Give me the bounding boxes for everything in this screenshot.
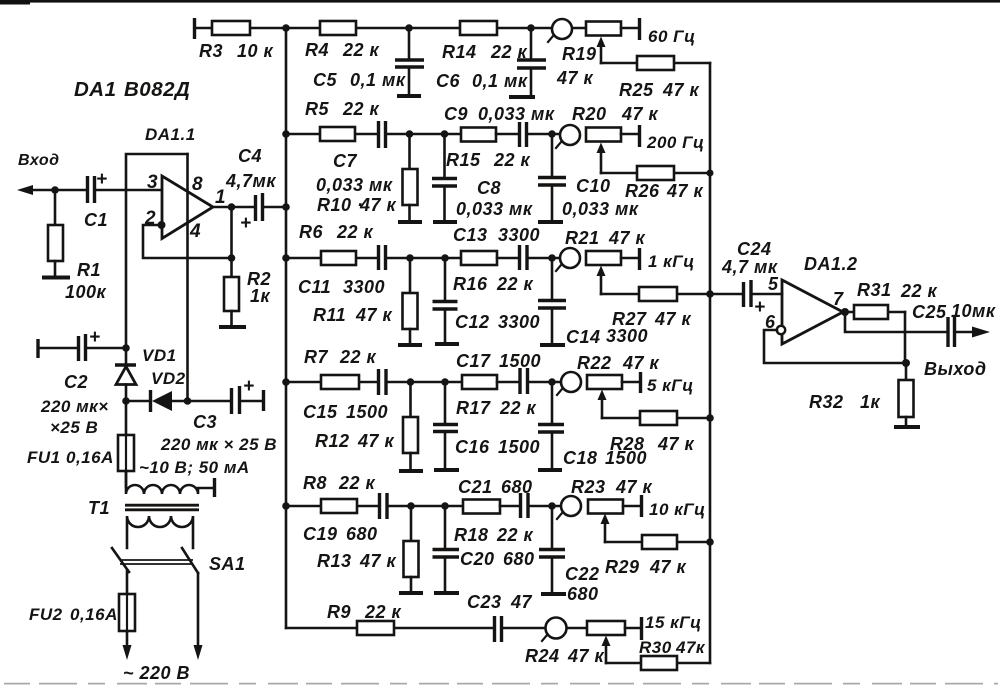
label C18 1500 [563,448,647,468]
svg-text:1500: 1500 [346,402,388,422]
svg-text:220 мк×: 220 мк× [40,397,109,416]
svg-text:+: + [754,297,766,318]
svg-text:10мк: 10мк [951,301,996,321]
svg-text:R13: R13 [317,551,352,571]
label R21 47к [565,228,646,248]
node row4 C16 junction [441,378,449,386]
label R15 22к [446,150,531,170]
svg-text:4,7мк: 4,7мк [225,171,276,191]
svg-text:Вход: Вход [18,152,60,169]
capacitor C2 [38,327,126,361]
svg-text:C2: C2 [64,372,88,392]
svg-text:R19: R19 [562,44,597,64]
node row1 C5 junction [405,24,413,32]
label R16 22к [453,274,534,294]
label R29 47к [605,557,687,577]
label R19 47к [556,44,597,88]
label C4 4,7мк [225,146,276,191]
node row5 C20 junction [441,502,449,510]
resistor R28 [602,411,714,425]
capacitor C22 shunt [539,506,566,594]
svg-text:C10: C10 [576,176,611,196]
svg-text:10 к: 10 к [237,41,274,61]
label C9 0,033мк [444,104,555,124]
svg-text:10 кГц: 10 кГц [649,500,706,519]
svg-text:5 кГц: 5 кГц [647,376,694,395]
capacitor C19 [380,493,463,519]
svg-text:47 к: 47 к [359,551,397,571]
svg-text:100к: 100к [65,282,107,302]
potentiometer R19 [531,18,640,63]
svg-text:3: 3 [147,172,158,193]
label R22 47к [577,353,660,373]
svg-text:C14: C14 [566,327,601,347]
label C2 220мк х25В [40,372,109,437]
wire pin4 vertical down to VD2 junction [186,154,189,401]
svg-text:220 мк × 25 В: 220 мк × 25 В [160,435,277,454]
switch SA1 [112,548,198,573]
resistor R4 [286,21,409,35]
resistor R32 [894,363,920,427]
node C4 to bus junction [282,203,290,211]
svg-text:C12: C12 [455,312,490,332]
svg-text:C8: C8 [477,178,501,198]
svg-text:22 к: 22 к [336,222,374,242]
resistor R18 [463,500,519,514]
wire mains left arrow [123,645,132,660]
resistor R29 [605,535,714,549]
svg-text:R23: R23 [571,477,606,497]
wire pin6 feedback [764,326,910,367]
svg-text:C25: C25 [912,302,947,322]
svg-text:R31: R31 [857,280,892,300]
node VD2/C3 junction [184,397,192,405]
svg-text:3300: 3300 [606,326,648,346]
capacitor C23 [495,616,547,642]
node row2 C8 junction [441,130,449,138]
svg-text:47 к: 47 к [654,309,692,329]
svg-text:C15: C15 [303,402,338,422]
resistor R6 [286,251,377,265]
capacitor C12 shunt [433,258,460,344]
svg-text:47 к: 47 к [649,557,687,577]
node row4 C18 junction [548,378,556,386]
bottom page edge (scan artifact) [4,683,998,685]
resistor R27 [601,287,714,301]
svg-text:R4: R4 [305,40,329,60]
svg-text:47 к: 47 к [556,68,594,88]
op-amp U DA1.1 [162,176,213,239]
resistor R7 [286,375,377,389]
node row5 R13 junction [407,502,415,510]
label R18 22к [454,525,534,545]
capacitor C10 shunt [538,134,566,222]
svg-text:В082Д: В082Д [124,78,190,101]
svg-text:C5: C5 [313,70,337,90]
svg-text:R1: R1 [77,260,101,280]
label R17 22к [456,398,537,418]
label R26 47к [625,181,704,201]
svg-text:VD1: VD1 [142,346,177,365]
svg-text:×25 В: ×25 В [50,418,98,437]
svg-text:R20: R20 [572,104,607,124]
capacitor C3 [188,376,264,414]
top page border line [0,0,1000,5]
transformer T1 core [125,505,199,510]
resistor R2 [219,258,246,327]
svg-text:DA1.2: DA1.2 [804,254,858,274]
svg-text:R29: R29 [605,557,640,577]
resistor R9 [286,621,493,635]
svg-text:1к: 1к [250,286,271,306]
svg-text:R25: R25 [619,80,654,100]
svg-text:C22: C22 [565,564,600,584]
svg-text:22 к: 22 к [496,525,534,545]
node row3 C12 junction [441,254,449,262]
capacitor C4 [240,193,286,234]
label C14 3300 [566,326,648,347]
svg-text:680: 680 [567,584,599,604]
svg-text:C1: C1 [84,210,108,230]
node row3 R11 junction [406,254,414,262]
capacitor C7 [379,121,462,148]
label C23 47 [467,592,533,612]
svg-text:FU1: FU1 [27,448,61,467]
svg-text:R5: R5 [305,99,329,119]
potentiometer R20 [556,125,640,173]
wire output pin1 [213,203,253,262]
capacitor C8 shunt [432,134,457,222]
label C17 1500 [456,351,541,371]
svg-text:1: 1 [215,187,226,208]
wire pin2 feedback loop [143,221,232,258]
svg-text:R28: R28 [610,434,645,454]
svg-text:47 к: 47 к [357,431,395,451]
label C12 3300 [455,312,540,332]
label FU2 0,16А [29,605,118,624]
svg-text:680: 680 [501,477,533,497]
resistor R30 [606,656,710,670]
svg-text:7: 7 [833,289,844,309]
label C22 680 [565,564,600,604]
svg-text:~10 В; 50 мА: ~10 В; 50 мА [139,458,250,477]
resistor R14 [409,21,531,35]
svg-text:R3: R3 [199,41,223,61]
resistor R26 [601,166,714,180]
resistor R31 [845,305,905,363]
svg-text:R30: R30 [639,638,672,657]
label R3 10к [199,41,274,61]
svg-text:200 Гц: 200 Гц [646,133,705,152]
label C20 680 [460,549,535,569]
svg-text:22 к: 22 к [499,398,537,418]
svg-text:3300: 3300 [498,312,540,332]
svg-text:R32: R32 [809,392,844,412]
resistor R25 [601,56,710,70]
resistor R1 [42,190,70,278]
resistor R13 shunt [399,506,423,593]
label C13 3300 [453,225,540,245]
capacitor C14 shunt [538,258,566,345]
resistor R10 shunt [398,134,422,222]
svg-text:~ 220 В: ~ 220 В [123,663,190,683]
svg-text:Выход: Выход [924,359,987,379]
svg-text:C3: C3 [193,412,217,432]
svg-text:47 к: 47 к [621,104,659,124]
svg-text:C4: C4 [238,146,262,166]
potentiometer R21 [556,248,640,294]
svg-text:0,033 мк: 0,033 мк [478,104,555,124]
svg-text:R21: R21 [565,228,600,248]
fuse FU2 [119,571,135,645]
svg-text:47 к: 47 к [567,646,605,666]
svg-text:22 к: 22 к [342,99,380,119]
label R14 22к [442,42,528,62]
svg-text:47 к: 47 к [622,353,660,373]
label R11 47к [313,305,393,325]
svg-text:C6: C6 [436,71,460,91]
label R12 47к [315,431,395,451]
svg-text:T1: T1 [88,498,110,518]
svg-text:47 к: 47 к [608,228,646,248]
svg-text:8: 8 [192,174,203,195]
label R7 22к [304,347,377,367]
wire output line [845,312,946,332]
svg-text:R27: R27 [612,309,647,329]
svg-text:C21: C21 [458,477,493,497]
svg-text:680: 680 [346,524,378,544]
transformer T1 primary winding [126,471,215,497]
resistor R17 [462,375,519,389]
potentiometer R23 [557,495,642,542]
svg-text:C16: C16 [455,437,490,457]
label C5 0,1мк [313,70,406,90]
svg-text:1 кГц: 1 кГц [648,252,695,271]
svg-text:R18: R18 [454,525,489,545]
svg-text:+: + [243,376,255,397]
svg-text:R12: R12 [315,431,350,451]
wire mains right lead and arrow [194,573,203,660]
label FU1 0,16А [27,448,114,467]
svg-text:0,16А: 0,16А [66,448,114,467]
svg-text:1500: 1500 [498,437,540,457]
label C21 680 [458,477,533,497]
label R24 47к [525,646,605,666]
label C15 1500 [303,402,388,422]
label DA1 В082Д [74,78,190,101]
label R30 47к [639,638,706,657]
svg-text:60 Гц: 60 Гц [648,27,696,46]
svg-text:C9: C9 [444,104,468,124]
capacitor C5 shunt [395,28,424,96]
svg-text:5: 5 [768,274,779,294]
svg-text:R26: R26 [625,181,660,201]
svg-text:C23: C23 [467,592,502,612]
svg-text:SA1: SA1 [209,554,246,574]
svg-text:R7: R7 [304,347,328,367]
label R4 22к [305,40,380,60]
capacitor C11 [379,245,462,270]
potentiometer R22 [557,372,641,418]
svg-text:47 к: 47 к [657,434,695,454]
svg-text:+: + [89,327,101,348]
diode VD2 [126,390,188,412]
node bus junctions [282,24,290,510]
svg-text:R16: R16 [453,274,488,294]
svg-text:R22: R22 [577,353,612,373]
svg-text:DA1: DA1 [74,78,117,101]
label R8 22к [303,473,376,493]
svg-text:R15: R15 [446,150,481,170]
node Вход input terminal arrow [17,185,86,195]
label R32 1к [809,392,881,412]
svg-text:FU2: FU2 [29,605,63,624]
node row2 R10 junction [406,130,414,138]
svg-text:3300: 3300 [498,225,540,245]
label C6 0,1мк [436,71,528,91]
label R31 22к [857,280,938,301]
svg-text:3300: 3300 [343,277,385,297]
svg-text:22 к: 22 к [900,281,938,301]
wire pin8 supply rail (box top and left vertical to C2 junction) [126,154,188,348]
label R10 47к [317,195,397,215]
label R13 47к [317,551,397,571]
label C25 10мк [912,301,996,322]
resistor R8 [286,499,378,513]
svg-text:0,16А: 0,16А [70,605,118,624]
node C2 junction [122,344,130,352]
label R9 22к [327,602,402,622]
label C3 220мк х 25В [160,412,277,454]
svg-text:R6: R6 [299,222,323,242]
transformer T1 secondary winding [127,516,193,548]
label R20 47к [572,104,659,124]
svg-text:1к: 1к [860,392,881,412]
svg-text:0,1 мк: 0,1 мк [472,71,528,91]
svg-text:R10 ·: R10 · [317,195,364,215]
label R5 22к [305,99,380,119]
capacitor C15 [379,369,463,395]
capacitor C17 [520,368,560,394]
label R2 1к [247,269,271,306]
svg-text:47: 47 [510,592,533,612]
svg-text:0,1 мк: 0,1 мк [350,70,406,90]
svg-text:+: + [240,213,252,234]
label C8 0,033мк [456,178,533,219]
capacitor C6 shunt [509,28,546,97]
capacitor C20 shunt [433,506,460,593]
svg-text:C17: C17 [456,351,491,371]
svg-text:DA1.1: DA1.1 [145,125,196,144]
capacitor C1 [88,169,162,203]
capacitor C18 shunt [538,382,564,470]
label R6 22к [299,222,374,242]
label C24 4,7мк [721,239,778,277]
label R27 47к [612,309,692,329]
svg-text:680: 680 [503,549,535,569]
svg-text:22 к: 22 к [493,150,531,170]
svg-text:4: 4 [189,221,201,242]
node row1 C6 junction [527,24,535,32]
svg-text:22 к: 22 к [342,40,380,60]
svg-text:0,033 мк: 0,033 мк [456,199,533,219]
svg-text:47 к: 47 к [355,305,393,325]
label C7 0,033мк [316,151,393,195]
svg-text:47к: 47к [675,638,706,657]
svg-text:R8: R8 [303,473,327,493]
label C16 1500 [455,437,540,457]
resistor R12 shunt [399,382,423,471]
svg-text:47 к: 47 к [615,477,653,497]
svg-text:C18: C18 [563,448,598,468]
svg-text:1500: 1500 [499,351,541,371]
svg-text:47 к: 47 к [662,80,700,100]
capacitor C21 [521,493,562,518]
node row4 R12 junction [407,378,415,386]
resistor R16 [461,251,518,265]
svg-text:+: + [96,169,108,190]
svg-text:C11: C11 [298,277,331,297]
node row2 C10 junction [548,130,556,138]
svg-text:22 к: 22 к [496,274,534,294]
label C19 680 [303,524,378,544]
svg-text:C19: C19 [303,524,338,544]
svg-text:VD2: VD2 [151,369,186,388]
capacitor C16 shunt [433,382,459,470]
label R25 47к [619,80,700,100]
resistor R5 [286,127,377,141]
diode VD1 [115,348,136,401]
svg-text:C7: C7 [333,151,357,171]
svg-text:47 к: 47 к [359,195,397,215]
svg-text:15 кГц: 15 кГц [645,613,702,632]
node DA1.2 output [841,308,849,316]
capacitor C24 [710,280,782,318]
op-amp U DA1.2 [782,280,843,344]
label R23 47к [571,477,653,497]
label R1 100к [65,260,107,302]
svg-text:0,033 мк: 0,033 мк [316,175,393,195]
fuse FU1 [118,401,134,487]
svg-text:R17: R17 [456,398,491,418]
resistor R11 shunt [398,258,422,345]
capacitor C9 [520,122,561,147]
potentiometer R24 [542,617,642,663]
svg-text:R9: R9 [327,602,351,622]
node row5 C22 junction [548,502,556,510]
label C11 3300 [298,277,385,297]
svg-text:R14: R14 [442,42,477,62]
svg-text:C20: C20 [460,549,495,569]
svg-text:C24: C24 [737,239,772,259]
node VD1/VD2 junction [122,397,130,405]
label C10 0,033мк [562,176,639,219]
wire left bus [285,28,288,628]
capacitor C13 [520,245,561,270]
svg-text:22 к: 22 к [339,347,377,367]
resistor R15 [461,128,518,142]
svg-text:C13: C13 [453,225,488,245]
svg-text:R24: R24 [525,646,560,666]
capacitor C25 [948,317,990,347]
svg-text:R11: R11 [313,305,346,325]
node input junction [51,186,59,194]
svg-text:47 к: 47 к [666,181,704,201]
wire right feedback bus [709,63,712,663]
node row3 C14 junction [548,254,556,262]
label R28 47к [610,434,695,454]
svg-text:0,033 мк: 0,033 мк [562,199,639,219]
